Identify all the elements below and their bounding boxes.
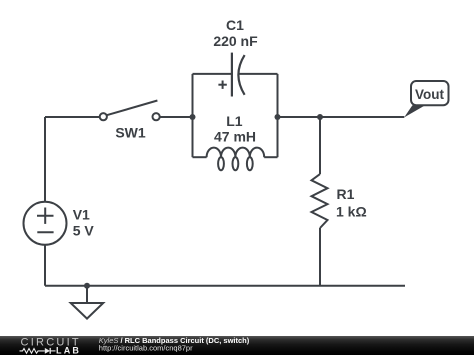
wire tank bottom-left to L1 (193, 156, 207, 158)
svg-text:SW1: SW1 (115, 124, 146, 140)
logo resistor squiggle (20, 349, 45, 354)
svg-text:1 kΩ: 1 kΩ (336, 204, 367, 220)
svg-text:5 V: 5 V (73, 222, 95, 238)
node C junction (317, 114, 323, 120)
wire bottom rail (45, 285, 405, 287)
wire C1 to tank top-right (240, 73, 278, 75)
voltage source V1 (24, 202, 67, 245)
wire V1 bottom (44, 245, 46, 286)
wire tank right vertical (277, 74, 279, 157)
ground junction (84, 283, 90, 289)
node A junction (190, 114, 196, 120)
capacitor C1 (232, 53, 245, 97)
svg-text:C1: C1 (226, 17, 244, 33)
node B junction (275, 114, 281, 120)
C1 plus polarity mark (218, 81, 226, 89)
wire node C to R1 (319, 117, 321, 174)
svg-text:LAB: LAB (56, 346, 81, 355)
Vout flag tail (404, 105, 425, 117)
resistor R1 (312, 174, 328, 228)
inductor L1 (207, 148, 265, 171)
wire node C to Vout (320, 116, 404, 118)
wire V1 top (44, 117, 46, 202)
wire left-to-switch (45, 116, 100, 118)
svg-text:R1: R1 (337, 186, 355, 202)
svg-text:http://circuitlab.com/cnq87pr: http://circuitlab.com/cnq87pr (99, 344, 193, 353)
wire L1 to tank bottom-right (264, 156, 277, 158)
wire R1 to bottom (319, 228, 321, 286)
wire ground stub (86, 286, 88, 303)
svg-text:Vout: Vout (415, 87, 444, 102)
wire tank left vertical (192, 74, 194, 157)
ground (71, 303, 104, 319)
wire tank top-left to C1 (193, 73, 232, 75)
wire node B to node C (278, 116, 321, 118)
svg-text:V1: V1 (73, 207, 90, 223)
switch SW1 (100, 101, 160, 121)
Vout flag (411, 81, 449, 105)
svg-text:L1: L1 (226, 113, 243, 129)
wire switch-to-node A (160, 116, 193, 118)
svg-text:47 mH: 47 mH (214, 128, 256, 144)
logo diode (45, 348, 50, 354)
svg-text:220 nF: 220 nF (213, 33, 258, 49)
